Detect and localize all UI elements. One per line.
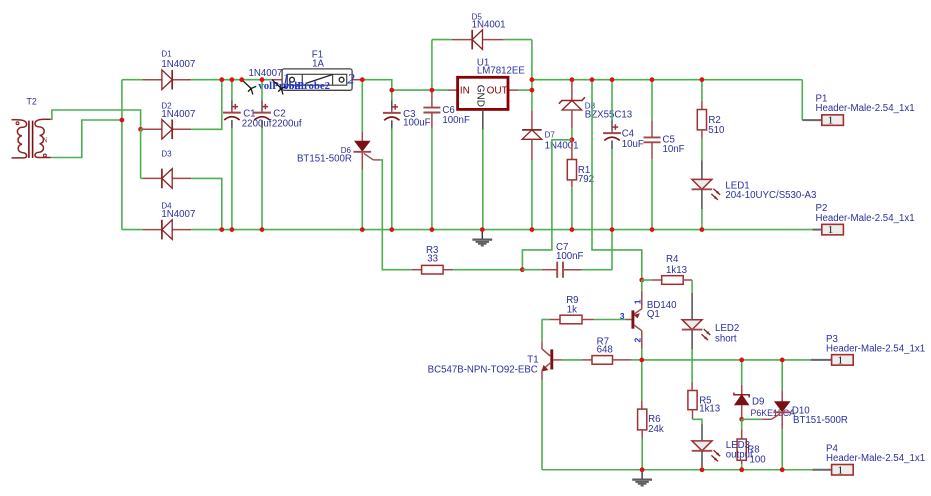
wire bottom rail bbox=[542, 469, 813, 471]
wire D5 row bbox=[432, 39, 452, 41]
transistor Q1 BD140 bbox=[620, 280, 677, 360]
svg-text:1N4001: 1N4001 bbox=[545, 141, 579, 152]
connector P2 Header-Male-2.54_1x1 bbox=[813, 203, 915, 236]
svg-text:10nF: 10nF bbox=[663, 144, 685, 155]
svg-text:1: 1 bbox=[16, 136, 20, 144]
svg-text:1N4007: 1N4007 bbox=[161, 109, 195, 120]
diode D1 1N4007 bbox=[143, 50, 196, 90]
wire D5 left riser bbox=[431, 40, 433, 91]
svg-text:LED2: LED2 bbox=[715, 323, 739, 334]
connector P1 Header-Male-2.54_1x1 bbox=[802, 93, 914, 126]
svg-text:100nF: 100nF bbox=[556, 251, 584, 262]
wire AC1 vertical bbox=[121, 80, 123, 230]
led LED2 short bbox=[682, 280, 739, 382]
svg-text:volProbe2: volProbe2 bbox=[284, 80, 331, 92]
node D8-R1 bbox=[570, 137, 575, 142]
junction dots gnd rail bbox=[219, 227, 224, 232]
capacitor C5 10nF bbox=[644, 80, 685, 230]
capacitor C7 100nF bbox=[522, 242, 612, 278]
svg-text:1N4001: 1N4001 bbox=[472, 19, 506, 30]
svg-text:1: 1 bbox=[838, 464, 844, 476]
led LED3 output bbox=[692, 419, 721, 469]
svg-text:510: 510 bbox=[708, 125, 725, 136]
thyristor D10 BT151-500R bbox=[762, 360, 848, 470]
probe volProbe2 bbox=[272, 80, 281, 89]
svg-text:1N4007: 1N4007 bbox=[161, 209, 195, 220]
junction dots P3 rail bbox=[639, 358, 644, 363]
node A1 bbox=[120, 118, 125, 123]
svg-text:LM7812EE: LM7812EE bbox=[477, 66, 525, 77]
wire D4 row / gnd rail bbox=[122, 229, 143, 231]
thyristor D6 BT151-500R bbox=[297, 80, 380, 230]
svg-text:Header-Male-2.54_1x1: Header-Male-2.54_1x1 bbox=[816, 213, 915, 224]
svg-text:2: 2 bbox=[632, 338, 642, 343]
svg-text:BC547B-NPN-TO92-EBC: BC547B-NPN-TO92-EBC bbox=[428, 365, 538, 376]
svg-text:GND: GND bbox=[474, 85, 485, 107]
svg-text:24k: 24k bbox=[648, 424, 664, 435]
wire D2 row bbox=[141, 128, 143, 130]
node A2 bbox=[138, 127, 143, 132]
svg-text:1k: 1k bbox=[567, 305, 577, 316]
svg-text:2200uf: 2200uf bbox=[272, 118, 302, 129]
svg-text:1N4007: 1N4007 bbox=[249, 68, 283, 79]
wire top rail right bbox=[532, 79, 802, 81]
svg-text:33: 33 bbox=[427, 254, 438, 265]
wire secondary-top to node A2 bbox=[51, 110, 141, 129]
svg-text:1: 1 bbox=[828, 115, 834, 127]
svg-text:D7: D7 bbox=[545, 130, 556, 139]
wire fuse to IN corner bbox=[362, 80, 448, 90]
resistor R2 510 bbox=[697, 80, 725, 161]
svg-text:100: 100 bbox=[750, 454, 767, 465]
svg-text:1: 1 bbox=[828, 224, 834, 236]
led LED1 204-10UYC/S530-A3 bbox=[692, 160, 817, 229]
probe volProbe1 bbox=[242, 80, 251, 89]
svg-text:IN: IN bbox=[460, 86, 470, 97]
ground (bottom) bbox=[632, 470, 652, 486]
wire secondary-bottom to node A1 bbox=[51, 120, 122, 158]
svg-text:T2: T2 bbox=[27, 97, 37, 107]
svg-text:1N4007: 1N4007 bbox=[161, 59, 195, 70]
wire D1 row bbox=[122, 79, 143, 81]
zener D8 BZX55C13 bbox=[559, 80, 632, 140]
svg-text:2: 2 bbox=[347, 72, 355, 88]
wire D9 node to D10 gate bbox=[742, 418, 763, 420]
capacitor C6 100nF bbox=[423, 90, 470, 230]
capacitor C2 2200uf bbox=[253, 80, 302, 230]
fuse F1 1A bbox=[272, 49, 362, 90]
resistor R3 33 bbox=[412, 245, 523, 274]
wire AC2 down to D3 bbox=[140, 129, 142, 178]
junction dots IN/OUT row bbox=[389, 88, 394, 93]
junction dots bottom rail bbox=[640, 467, 645, 472]
svg-text:10uF: 10uF bbox=[622, 139, 644, 150]
node R3-C7 bbox=[520, 267, 525, 272]
svg-text:2200uf: 2200uf bbox=[242, 118, 272, 129]
svg-text:204-10UYC/S530-A3: 204-10UYC/S530-A3 bbox=[725, 190, 816, 201]
wire top rail to R4 node bbox=[592, 80, 642, 280]
tvs D9 P6KE15A bbox=[734, 360, 795, 419]
svg-text:1: 1 bbox=[632, 299, 642, 304]
resistor R9 1k bbox=[542, 295, 626, 324]
svg-text:Header-Male-2.54_1x1: Header-Male-2.54_1x1 bbox=[816, 103, 915, 114]
svg-text:BT151-500R: BT151-500R bbox=[793, 415, 848, 426]
capacitor C4 10uF bbox=[603, 80, 644, 230]
svg-text:1k13: 1k13 bbox=[699, 403, 720, 414]
svg-text:BT151-500R: BT151-500R bbox=[297, 154, 352, 165]
svg-text:Header-Male-2.54_1x1: Header-Male-2.54_1x1 bbox=[826, 344, 925, 355]
wire C7 right riser bbox=[611, 230, 613, 270]
capacitor C3 100uF bbox=[383, 90, 431, 230]
svg-text:100uF: 100uF bbox=[403, 118, 431, 129]
resistor R8 100 bbox=[737, 419, 746, 469]
resistor R1 792 bbox=[567, 140, 594, 230]
svg-text:D9: D9 bbox=[752, 396, 764, 407]
svg-text:648: 648 bbox=[597, 345, 613, 356]
resistor R4 1k13 bbox=[642, 254, 692, 284]
wire D3 row bbox=[141, 177, 143, 179]
svg-text:1A: 1A bbox=[312, 58, 324, 69]
node R4-Q1 bbox=[639, 278, 644, 283]
svg-text:D3: D3 bbox=[161, 149, 172, 158]
transistor T1 BC547B-NPN-TO92-EBC bbox=[428, 320, 562, 470]
ground (mid rail) bbox=[472, 230, 492, 246]
svg-text:short: short bbox=[715, 334, 737, 345]
diode D7 1N4001 bbox=[522, 90, 578, 230]
svg-text:R4: R4 bbox=[666, 254, 679, 265]
wire D8/R1 node to C7 left bbox=[522, 140, 572, 270]
connector P4 Header-Male-2.54_1x1 bbox=[813, 443, 926, 476]
wire P3 rail bbox=[642, 359, 811, 361]
svg-text:C4: C4 bbox=[622, 129, 635, 140]
resistor R6 24k bbox=[638, 360, 664, 470]
capacitor C1 2200uf bbox=[223, 80, 272, 230]
svg-text:1: 1 bbox=[838, 355, 844, 367]
wire D6 gate to R3 bbox=[380, 160, 412, 270]
resistor R7 648 bbox=[562, 336, 642, 364]
regulator U1 LM7812EE bbox=[448, 58, 532, 230]
connector P3 Header-Male-2.54_1x1 bbox=[811, 334, 925, 367]
resistor R5 1k13 bbox=[688, 382, 720, 419]
diode D5 1N4001 bbox=[452, 12, 506, 49]
svg-text:1k13: 1k13 bbox=[666, 265, 687, 276]
diode D2 1N4007 bbox=[143, 101, 196, 139]
svg-text:Header-Male-2.54_1x1: Header-Male-2.54_1x1 bbox=[826, 453, 925, 464]
svg-text:Q1: Q1 bbox=[647, 309, 660, 320]
svg-text:N: N bbox=[42, 137, 47, 145]
svg-text:D1: D1 bbox=[161, 50, 172, 59]
transformer T2 bbox=[12, 97, 51, 158]
diode D4 1N4007 bbox=[143, 201, 196, 239]
wire D5 right riser bbox=[531, 40, 533, 91]
diode D3 bbox=[143, 149, 191, 188]
node D9-R8 bbox=[739, 417, 744, 422]
svg-text:100nF: 100nF bbox=[442, 115, 470, 126]
junction dots top rail bbox=[219, 77, 224, 82]
svg-text:OUT: OUT bbox=[487, 86, 508, 97]
